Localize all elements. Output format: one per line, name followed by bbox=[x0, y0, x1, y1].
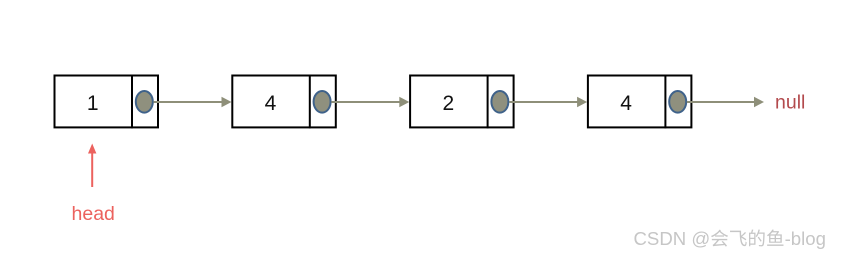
svg-text:CSDN @: CSDN @ bbox=[634, 228, 711, 249]
wire arrow N4 to null bbox=[687, 97, 764, 107]
svg-text:head: head bbox=[72, 203, 115, 225]
watermark CJK char 飞 bbox=[730, 231, 747, 246]
watermark CJK char 会 bbox=[711, 230, 728, 247]
node N4 box bbox=[588, 76, 692, 128]
watermark CJK char 的 bbox=[749, 230, 765, 247]
wire arrow N1 to N2 bbox=[154, 97, 232, 107]
node N3 divider bbox=[487, 75, 489, 129]
wire arrow N2 to N3 bbox=[331, 97, 409, 107]
svg-text:4: 4 bbox=[620, 92, 632, 115]
watermark CSDN text bbox=[634, 228, 826, 249]
node N3 box bbox=[410, 76, 513, 128]
node N2 pointer dot bbox=[314, 91, 331, 113]
svg-text:1: 1 bbox=[87, 92, 99, 115]
node N2 box bbox=[232, 76, 335, 128]
node N2 divider bbox=[309, 75, 311, 129]
node N1 box bbox=[55, 76, 159, 128]
svg-text:4: 4 bbox=[265, 92, 277, 115]
svg-text:-blog: -blog bbox=[785, 228, 826, 249]
node N1 divider bbox=[131, 75, 133, 129]
wire arrow N3 to N4 bbox=[509, 97, 587, 107]
watermark CJK char 鱼 bbox=[767, 230, 783, 246]
svg-text:null: null bbox=[775, 92, 805, 114]
node N4 pointer dot bbox=[669, 91, 686, 113]
node N3 pointer dot bbox=[491, 91, 508, 113]
head pointer arrow bbox=[88, 144, 96, 188]
svg-text:2: 2 bbox=[442, 92, 454, 115]
node N1 pointer dot bbox=[136, 91, 153, 113]
node N4 divider bbox=[664, 75, 666, 129]
